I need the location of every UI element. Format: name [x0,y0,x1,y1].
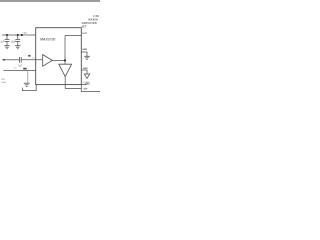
node output junction [64,59,66,61]
op-amp U1b inverting [64,60,66,64]
ground (bias) [24,83,30,86]
wire right edge drop [80,85,82,92]
capacitor C3 1uF input coupling [20,57,22,63]
wire bottom run [65,88,81,90]
node VDD junction [21,34,23,36]
node supply-cap2 junction [17,34,19,36]
svg-text:1µF: 1µF [0,42,5,44]
svg-text:1µF: 1µF [18,65,23,67]
svg-text:IN: IN [33,58,36,60]
svg-text:5V: 5V [24,32,27,35]
ground (C1) [4,46,9,49]
wire bias ground branch [27,71,29,83]
svg-text:R IN: R IN [1,79,5,81]
wire supply rail VDD [2,34,36,36]
wire audio input [4,59,19,61]
pin label IN+ [23,68,26,70]
svg-text:10kΩ: 10kΩ [1,82,6,84]
wire to OUT pin [65,35,81,37]
ground (C2) [15,46,20,49]
wire feedback up [64,36,66,61]
svg-text:SET: SET [82,25,87,28]
input terminal arrow [2,59,5,61]
IC U1 MAX9730 box [36,28,82,85]
node supply-cap1 junction [6,34,8,36]
page top bar [0,0,100,2]
wire bottom left run [23,85,37,91]
svg-text:GND: GND [85,83,90,85]
wire GND stub [81,52,87,56]
svg-text:GND: GND [82,49,87,51]
svg-text:MAXIM: MAXIM [88,18,97,21]
wire op-amp output [52,59,65,61]
wire cap to IN pin [21,59,42,61]
op-amp U1a [43,55,53,67]
wire input 2 (bias) [4,70,36,72]
annotation text top right [82,15,100,28]
wire to speaker out [81,91,100,93]
svg-text:MAX9730: MAX9730 [40,37,56,41]
capacitor C1 1uF bypass [5,35,10,45]
svg-text:10µF: 10µF [11,42,17,44]
svg-text:22k: 22k [14,68,17,70]
svg-text:OUT: OUT [82,33,87,35]
wire bottom-right stub [81,84,86,86]
svg-text:OUT: OUT [83,89,88,91]
wire PGND stub [81,70,87,74]
ground (GND pin) [84,56,90,59]
wire inverted output down [64,77,66,89]
capacitor C2 10uF bypass [15,35,20,45]
ground (arrow style) [84,74,89,78]
pin label IN [28,55,30,57]
